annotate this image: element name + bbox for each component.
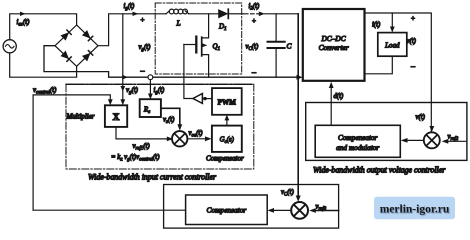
- v_g sense wire down to multiplier: [122, 14, 124, 100]
- small arrow on rail after step: [122, 75, 128, 80]
- multiplier X box: [105, 105, 127, 127]
- boost converter dashed box: [155, 3, 242, 74]
- svg-text:PWM: PWM: [218, 99, 237, 107]
- multiplier output wire to summer: [116, 127, 167, 139]
- wire bridge right vertex to top rail: [98, 14, 166, 46]
- i_g sense drop to R_s: [149, 80, 151, 94]
- summing junction bottom: [291, 202, 308, 219]
- svg-text:Compensator: Compensator: [206, 155, 244, 163]
- diode D1: [219, 10, 228, 18]
- i(t) arrow into load: [391, 13, 393, 27]
- bottom outer box: [164, 185, 339, 229]
- svg-text:L: L: [176, 19, 181, 28]
- d(t) arrow into dc-dc: [330, 88, 332, 126]
- wire summer to compensator box: [274, 209, 291, 211]
- wire diode to output node: [229, 13, 243, 15]
- svg-text:and modulator: and modulator: [336, 143, 379, 152]
- bridge diode top-left: [61, 33, 68, 40]
- svg-text:Compensator: Compensator: [338, 133, 377, 142]
- wire source bottom return to bridge bottom vertex: [10, 53, 77, 77]
- long v_C feedback wire down right side: [297, 14, 299, 196]
- wire bridge left vertex to dc minus rail: [44, 46, 298, 77]
- i2(t) dashed output arrow: [245, 13, 259, 15]
- svg-text:Wide-bandwidth output voltage: Wide-bandwidth output voltage controller: [313, 166, 446, 175]
- svg-text:Load: Load: [384, 42, 400, 50]
- svg-text:+: +: [252, 17, 256, 25]
- R_s box: [140, 99, 161, 117]
- v_control wire: [33, 95, 110, 210]
- bridge diode top-right: [83, 31, 90, 38]
- svg-text:Compensator: Compensator: [206, 206, 246, 215]
- wire G_c to PWM: [226, 120, 228, 126]
- compensator box (voltage loop, low bandwidth): [186, 195, 268, 225]
- input current controller dashed box: [66, 84, 254, 169]
- summing junction output voltage: [424, 132, 440, 148]
- wire compensator output to v_control riser: [33, 209, 186, 211]
- wire source top to bridge top vertex: [10, 14, 77, 40]
- PWM box: [212, 88, 242, 115]
- svg-text:v(t): v(t): [407, 38, 417, 45]
- arrow rail into dc-dc box: [297, 75, 303, 80]
- svg-text:X: X: [113, 113, 120, 123]
- R_s output wire to summer: [161, 108, 180, 124]
- bridge diode bottom-left: [61, 51, 68, 58]
- G_c(s) compensator box: [212, 126, 242, 152]
- svg-text:merlin-igor.ru: merlin-igor.ru: [380, 204, 450, 216]
- transistor Q1: [202, 14, 209, 38]
- bridge diode bottom-right: [83, 54, 90, 61]
- gate drive wire: [184, 45, 193, 99]
- compensator and modulator box: [315, 125, 400, 157]
- wire dc-dc to load and v(t) node: [365, 13, 432, 131]
- svg-text:i(t): i(t): [372, 22, 381, 29]
- v_ref2 input: [448, 140, 467, 142]
- svg-text:+: +: [141, 16, 145, 24]
- gate driver triangle: [193, 94, 202, 104]
- wire summer to G_c: [187, 138, 205, 140]
- wire load bottom return: [365, 56, 393, 74]
- ac source vac: [3, 40, 16, 53]
- svg-text:Wide-bandwidth input current c: Wide-bandwidth input current controller: [88, 172, 217, 181]
- load box: [378, 33, 407, 57]
- dc-dc converter box: [303, 9, 365, 81]
- v(t) arrow into summer: [429, 126, 434, 132]
- watermark merlin-igor.ru: [374, 197, 455, 220]
- v_ref3 input: [316, 210, 339, 212]
- output voltage controller outer box: [306, 103, 467, 161]
- svg-text:Converter: Converter: [319, 43, 349, 52]
- i_ac(t) current arrow: [20, 12, 26, 16]
- svg-text:+: +: [411, 15, 415, 23]
- svg-text:v(t): v(t): [416, 114, 426, 121]
- diode bridge diamond wires: [55, 25, 98, 66]
- wire to capacitor and feedback corner: [265, 13, 299, 15]
- inductor L: [166, 11, 170, 14]
- svg-text:d(t): d(t): [334, 93, 345, 100]
- i_g(t) arrow on top wire: [133, 12, 139, 16]
- wire summer to compensator: [408, 139, 424, 141]
- summing junction current loop: [172, 131, 187, 146]
- wire inductor to diode: [189, 13, 219, 15]
- denser top edge of controller dashed box: [66, 83, 254, 85]
- wire PWM to gate driver: [202, 98, 212, 100]
- svg-text:Multiplier: Multiplier: [66, 114, 95, 121]
- node circle on rail (current sense tap): [148, 75, 153, 80]
- capacitor C: [275, 14, 277, 41]
- svg-text:DC–DC: DC–DC: [320, 34, 345, 43]
